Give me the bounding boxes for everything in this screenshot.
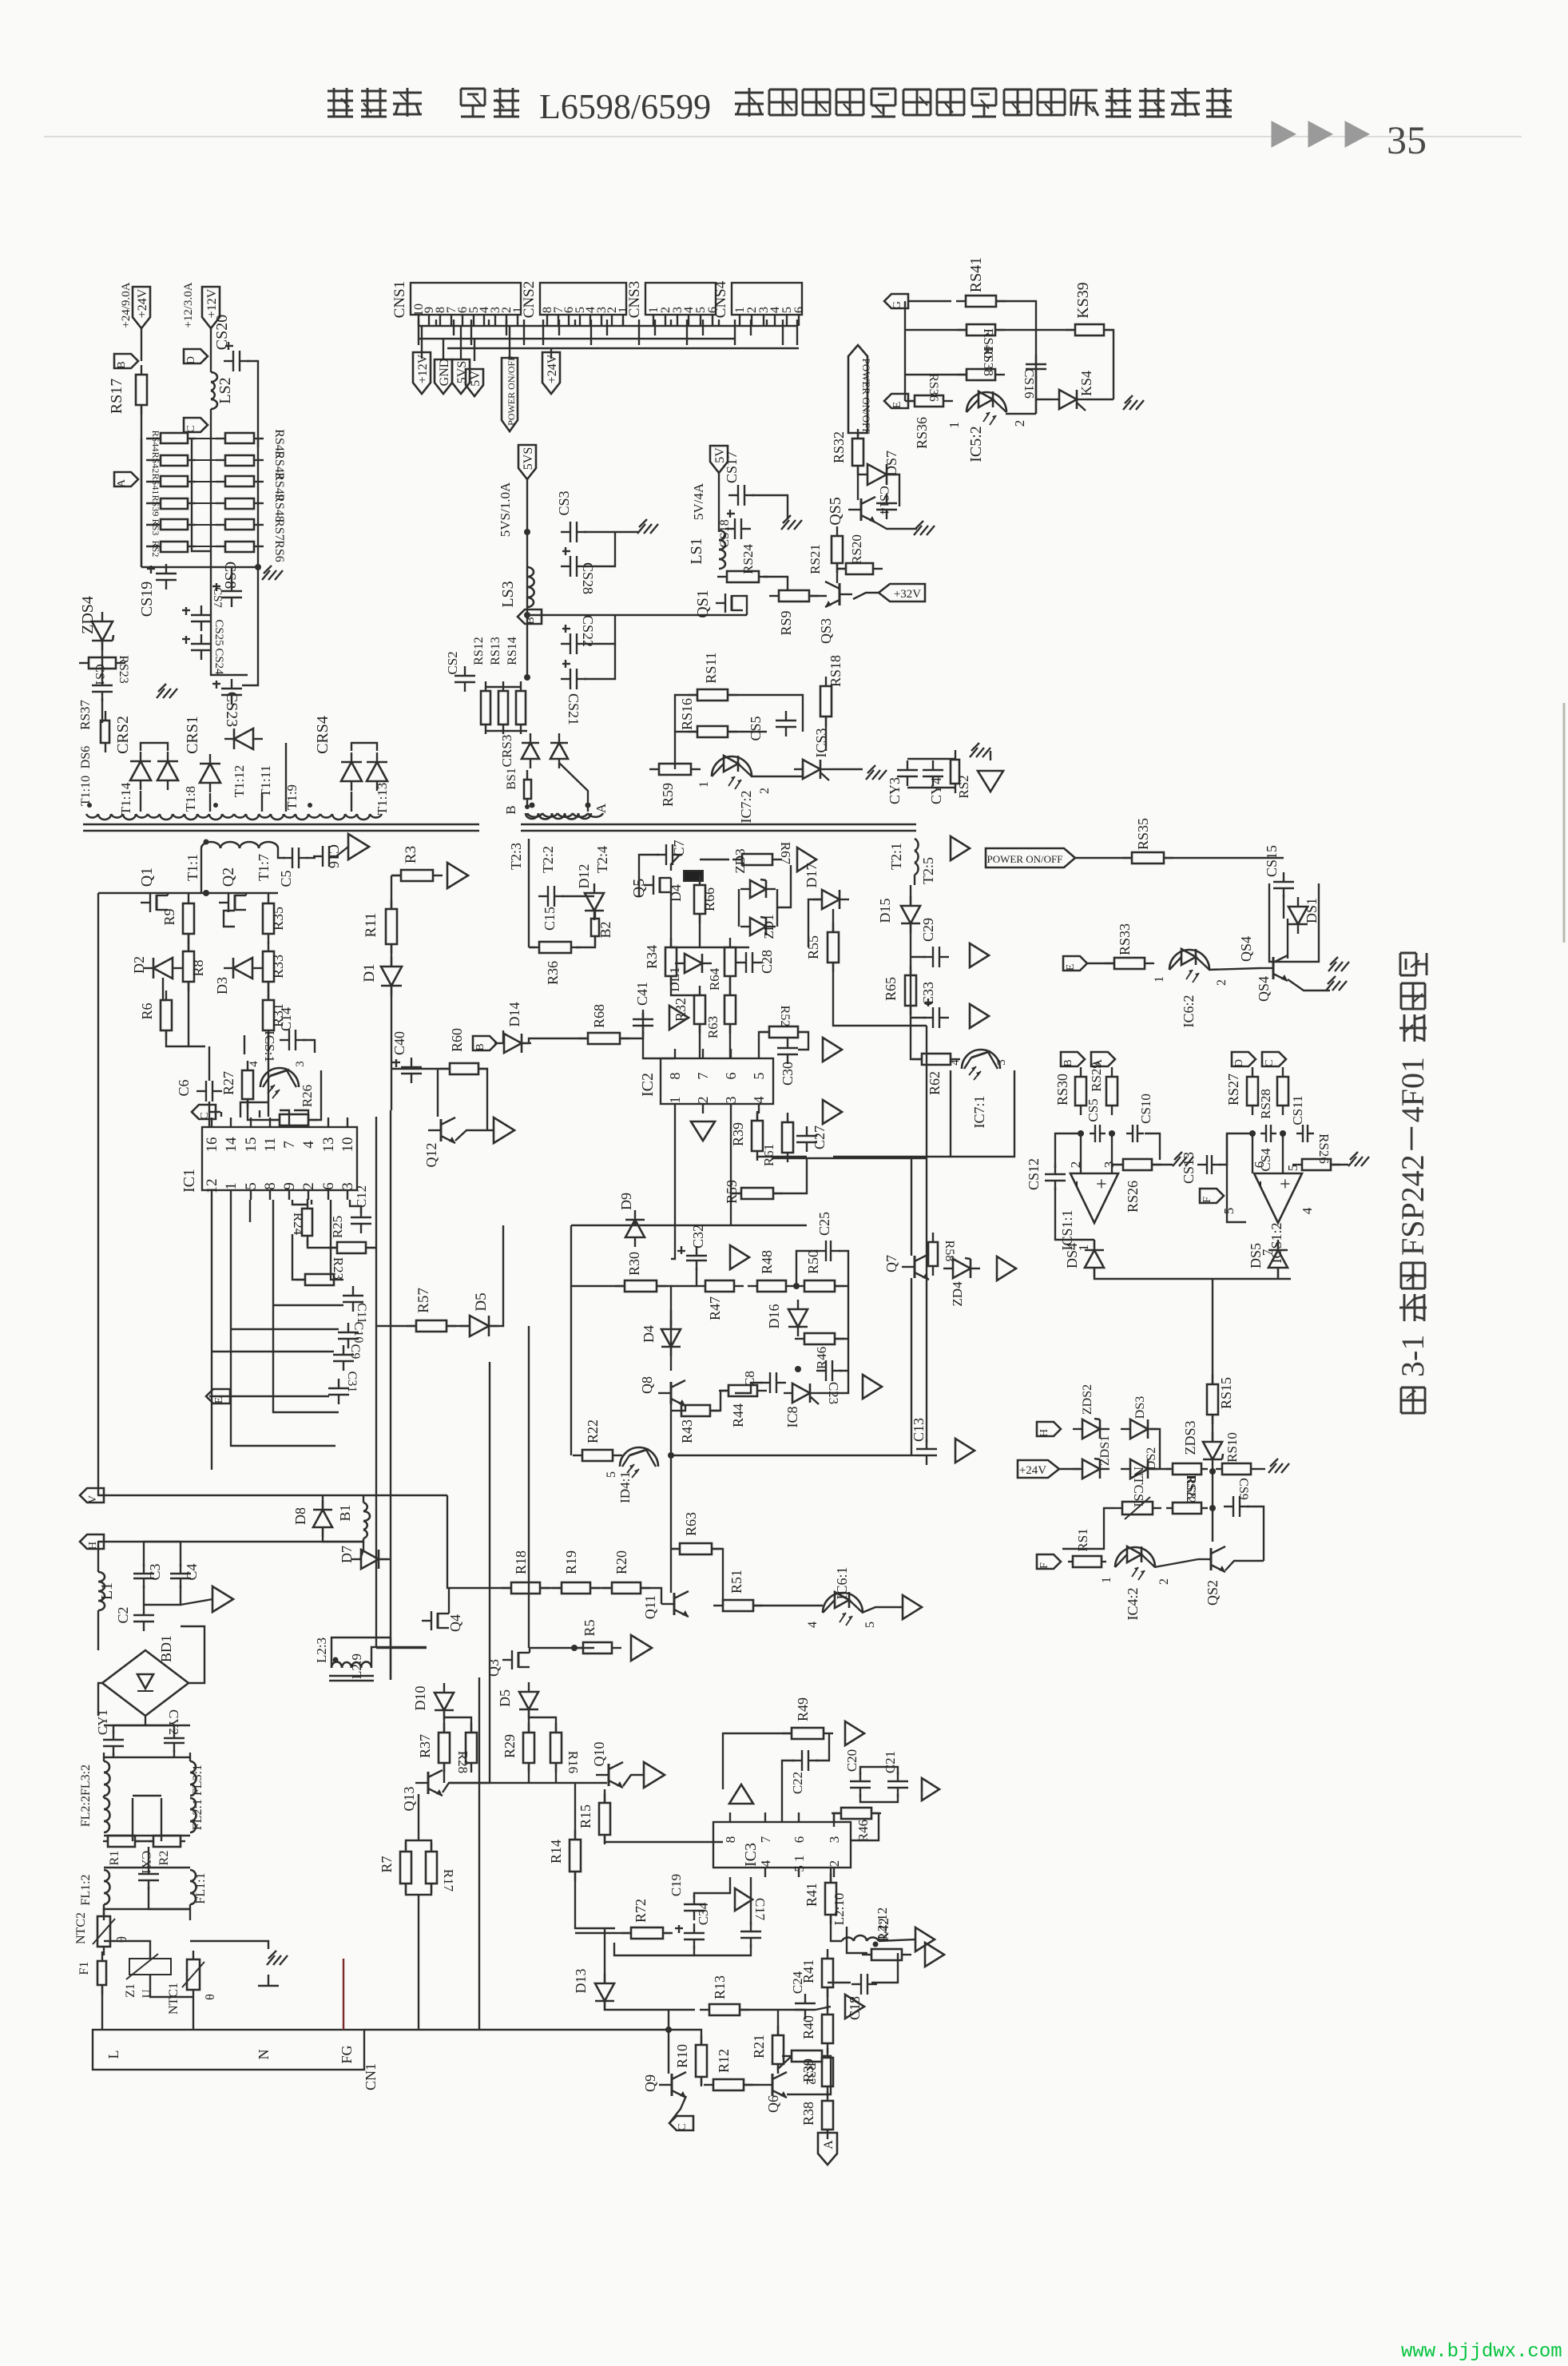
wire r55 down [833,963,927,1026]
wire r37 loop [444,1717,471,1733]
wire d1 down [391,986,392,1110]
svg-text:9: 9 [281,1182,298,1190]
wire fl ladder t2 [104,1725,190,1726]
svg-text:35: 35 [1387,117,1427,162]
svg-text:3: 3 [827,1836,842,1844]
wire res col left bus [141,439,142,567]
svg-text:D: D [185,356,197,364]
wire ds2 rs8 [1150,1468,1171,1470]
resistor R1 [103,1836,140,1847]
svg-text:E: E [213,1397,225,1404]
svg-text:R13: R13 [712,1975,728,1999]
svg-text:R42: R42 [875,1918,891,1942]
svg-text:R64: R64 [707,967,722,990]
svg-text:1: 1 [223,1182,240,1190]
wire rs9 qs3 [809,595,827,597]
svg-text:C: C [1264,1059,1276,1066]
wire ntc loop [1062,1508,1113,1549]
svg-text:B: B [116,361,128,368]
resistor R19 [552,1582,600,1594]
svg-text:RS12: RS12 [472,637,486,665]
capacitor C11 [343,1286,363,1312]
wire rs40 [905,329,967,331]
svg-text:R1: R1 [108,1851,121,1866]
wire b1 up [363,1495,364,1503]
wire c40 r60 [391,1068,449,1070]
wire e rs33 [1087,963,1115,964]
resistor RS49 [216,476,264,486]
capacitor C12 [351,1208,371,1233]
ground ics3b [866,765,887,780]
wire left bus down [97,893,99,1495]
wire c25 r [839,1251,848,1286]
wire c16 arrow [336,847,348,856]
transistor QS2 [1198,1546,1225,1572]
resistor R10 [696,2035,707,2086]
resistor R48 [748,1280,796,1292]
svg-text:R49: R49 [795,1697,811,1721]
svg-text:G: G [891,301,903,309]
wire r29 loop [529,1717,556,1733]
svg-text:R46: R46 [855,1820,871,1842]
inductor L1 [98,1572,116,1610]
svg-text:C21: C21 [883,1751,898,1773]
net arrow c13 [955,1439,975,1463]
resistor R59 [732,1188,783,1199]
svg-text:ZD3: ZD3 [732,848,748,873]
resistor R16 [550,1723,562,1773]
wire cn l [101,1985,103,2030]
svg-text:CS17: CS17 [724,451,740,483]
resistor R60 [440,1063,488,1074]
wire bd1 cy link [113,1753,114,1757]
capacitor C29 [923,947,949,967]
resistor RS42 [146,455,196,466]
wire f5vs [460,326,462,359]
resistor R31 [263,990,274,1040]
svg-text:ID4:1: ID4:1 [617,1471,633,1503]
DS1 box [1269,883,1319,962]
wire icsb in1 [1252,1133,1253,1173]
svg-text:CX1: CX1 [139,1851,153,1875]
capacitor C18 [851,1974,877,1995]
wire d7 down [360,1542,363,1559]
wire f24 [550,348,552,359]
resistor RS2b [951,750,959,793]
resistor RS45 [216,433,264,443]
svg-text:Q7: Q7 [883,1255,899,1272]
zener ZD4 [943,1258,980,1278]
wire fgnd [443,339,444,359]
wire zds1 row [1059,1468,1080,1470]
svg-text:C40: C40 [391,1031,407,1055]
resistor R66 [694,875,705,923]
resistor R26 [270,1114,318,1125]
wire c18 r [871,1953,898,1983]
wire cs17 [752,495,788,519]
svg-text:IC4:2: IC4:2 [1125,1587,1141,1620]
svg-text:RS3: RS3 [150,519,161,536]
resistor R12 [704,2079,753,2090]
wire c27 rail2 [772,1157,927,1159]
zener ZDS2 [1073,1419,1110,1439]
flag +24V qs2 [1018,1460,1059,1478]
wire mid bus b [489,1362,490,1783]
wire r7 down [418,1895,419,2030]
diode DS4 [1085,1241,1104,1277]
node E flag relay [884,394,908,408]
resistor R41 [822,1949,833,1997]
wire cs16 dn [1035,376,1037,414]
node E flag left [206,1389,230,1403]
svg-text:R12: R12 [716,2049,732,2073]
svg-text:C16: C16 [326,844,342,868]
ground 5v [781,515,802,530]
svg-text:IC6:1: IC6:1 [834,1566,850,1599]
ground rs26b [1348,1152,1369,1166]
wire rs38 [905,374,967,375]
resistor R63b [724,986,736,1034]
wire crs4 net [351,743,377,751]
svg-text:H: H [87,1542,99,1550]
svg-text:IC7:1: IC7:1 [971,1095,987,1128]
svg-text:D15: D15 [877,899,893,923]
wire c33 stub [911,1017,926,1018]
wire d5 to q3 drain [528,1326,530,1648]
wire rs top [486,686,521,688]
wire ic72 r [751,765,803,776]
svg-text:RS28: RS28 [1258,1089,1273,1119]
svg-text:C30: C30 [780,1062,796,1086]
net arrow c4 [212,1586,233,1612]
wire relay top [908,300,951,302]
junction rs27 [1249,1130,1256,1137]
optocoupler IC6:1 [823,1592,863,1626]
wire d14 r [522,1042,529,1044]
capacitor C34 [675,1923,705,1949]
wire c4 arr [181,1599,212,1605]
svg-text:R35: R35 [270,907,286,931]
svg-text:DS1: DS1 [1304,898,1320,923]
wire fl1 bot l [103,1904,105,1920]
svg-text:C27: C27 [812,1125,828,1149]
wire cx1 v2 [149,1887,190,1909]
wire r43 r [710,1391,728,1411]
wire D to LS2 [210,356,212,372]
resistor R3 [391,870,443,881]
svg-text:R7: R7 [379,1856,395,1872]
wire r10 r12 [701,2077,702,2085]
wire q2 gate [224,911,235,927]
net arrow t1 [348,834,369,859]
svg-text:5: 5 [1221,1208,1237,1215]
connector CNS1 [411,283,521,315]
svg-text:5: 5 [243,1182,260,1190]
svg-text:RS30: RS30 [1054,1074,1070,1106]
wire q8 r43 [681,1404,685,1411]
net arrow c24 [845,1995,864,2019]
wire ic62 qs4 [1209,968,1260,970]
diode D13 [595,1974,614,2011]
svg-text:DS4: DS4 [1064,1243,1080,1268]
wire cs9 r [1247,1507,1264,1561]
svg-text:CY1: CY1 [95,1709,110,1735]
wire ic1 p11 [259,1110,260,1117]
svg-text:T2:1: T2:1 [888,843,904,870]
resistor R59b [649,764,701,775]
svg-text:F: F [1038,1562,1050,1569]
wire ic52 out [1006,413,1036,415]
svg-text:R21: R21 [751,2035,767,2058]
svg-text:RS37: RS37 [77,700,93,730]
wire zd rail [700,947,749,948]
wire ics1 loop [248,1099,280,1120]
svg-text:DS3: DS3 [1133,1396,1147,1419]
capacitor CY2 [164,1729,185,1753]
wire c7 l [639,855,659,896]
svg-text:4: 4 [806,1622,820,1628]
inductor FL1:2 [104,1870,110,1904]
wire cs15 down [1283,895,1284,919]
resistor R17 [426,1842,437,1893]
svg-text:1: 1 [947,422,962,429]
resistor RS37 [101,711,109,752]
resistor R7 [400,1842,411,1893]
wire cs10 r [1145,1133,1160,1160]
zener ZD3 [740,879,776,898]
svg-text:4: 4 [1300,1207,1315,1214]
wire cs28 r [584,532,615,566]
capacitor C13 [916,1439,937,1465]
wire c41 up [642,1013,644,1038]
wire fl top l [103,1753,105,1761]
wire r46 l [834,1813,840,1827]
svg-text:D2: D2 [131,956,147,974]
resistor R18 [502,1582,550,1594]
resistor R32b [694,986,705,1034]
net arrow c33 [970,1004,989,1028]
svg-text:D13: D13 [573,1969,589,1994]
svg-text:A: A [593,803,609,813]
wire r30 l [571,1225,625,1286]
resistor RS12 [481,681,490,734]
transistor Q7 [902,1254,929,1280]
wire r60 r [478,1069,487,1130]
svg-text:T1:13: T1:13 [375,783,390,816]
capacitor C14 [280,1030,305,1050]
wire rs26 l [1112,1164,1123,1165]
svg-text:QS3: QS3 [818,618,834,644]
svg-text:RS36: RS36 [914,417,930,449]
svg-text:3-1: 3-1 [1395,1335,1431,1377]
wire icsa in1 [1080,1133,1082,1173]
svg-text:2: 2 [1157,1578,1171,1585]
wire cy bot [907,787,955,788]
wire r41 l2 [831,1915,842,1941]
resistor R5 [574,1642,621,1653]
svg-text:Q9: Q9 [642,2074,658,2092]
resistor R62 [912,1054,960,1065]
diode D16 [788,1300,808,1336]
wire r31 down [268,1030,269,1117]
wire ds4 rail [1094,1268,1291,1279]
svg-text:CS2: CS2 [445,651,460,674]
svg-text:B2: B2 [597,921,613,938]
diode D14 [494,1034,531,1053]
resistor RS41 [956,257,1006,307]
wire z1 vert [104,1941,150,1959]
net arrow t25 [951,836,970,860]
resistor R23 [296,1274,343,1285]
wire LS2 to C [210,409,212,471]
node D flag [184,349,208,364]
header title text [327,90,353,93]
transistor Q9 [659,2072,686,2098]
transistor Q10 [596,1762,623,1788]
wire z1 b [150,1975,193,1997]
wire r16 j2 [555,1763,557,1783]
svg-text:16: 16 [204,1137,220,1153]
flag +12V out [413,352,431,394]
flag 5V rail [710,446,728,473]
svg-text:R63: R63 [683,1512,699,1536]
capacitor C20 [850,1772,871,1797]
svg-text:IC8: IC8 [784,1407,800,1428]
wire ic1 p5 [249,1200,251,1222]
capacitor C9 [333,1345,354,1371]
node B flag rs30 [1061,1052,1085,1067]
diode DS2 [1121,1459,1157,1479]
wire cs21 r [584,644,615,679]
flag GND out [435,359,452,394]
wire zd tie [777,865,791,907]
wire d4 between [670,1310,672,1326]
capacitor C23 [816,1360,842,1381]
wire r18 l [447,1495,511,1588]
svg-text:Q2: Q2 [220,867,237,887]
wire r8 down [188,982,189,1046]
net arrow ic3 p6 [729,1784,753,1804]
wire bd1 l [98,1683,102,1716]
capacitor CS10 [1126,1125,1144,1142]
capacitor C30 [777,1038,798,1064]
svg-text:R20: R20 [613,1550,629,1574]
svg-text:CS14: CS14 [877,486,891,514]
svg-text:5VS: 5VS [522,447,535,470]
svg-text:CY3: CY3 [887,777,903,804]
resistor RS35 [1122,852,1173,863]
svg-text:CRS1: CRS1 [184,716,201,754]
wire c34 up [143,1542,145,1566]
wire rs bot [486,730,527,732]
svg-text:R3: R3 [403,846,419,863]
svg-text:NTC2: NTC2 [74,1912,88,1944]
transistor QS5 [827,497,875,526]
bridge rectifier BD1 [102,1650,189,1716]
connector CNS3 [645,283,716,315]
wire r23 l [292,1234,305,1280]
resistor R9 [183,894,194,943]
wire r7 bot [406,1884,431,1895]
wire r15 rail [605,1835,723,1842]
resistor RS8 [1166,1463,1208,1475]
svg-text:DS5: DS5 [1248,1243,1264,1268]
wire qs3 32v [853,593,879,599]
svg-text:R48: R48 [759,1250,775,1274]
wire c6 dn [208,1102,210,1112]
resistor RS15 [1207,1375,1218,1424]
resistor RS26b [1292,1159,1340,1170]
net arrow q12 [494,1117,514,1143]
wire r50 r [835,1285,848,1287]
IC IC3 [713,1812,851,1877]
resistor R25 [327,1242,375,1253]
svg-text:10: 10 [339,1137,356,1153]
optocoupler IC6:2 [1169,949,1209,983]
transistor Q12 [428,1117,455,1143]
wire r25 r [366,1247,376,1249]
svg-text:IC2: IC2 [639,1073,657,1097]
svg-text:CS20: CS20 [213,315,231,350]
wire r32 loop [787,2056,831,2094]
capacitor CS15 [1273,872,1294,898]
svg-text:Q12: Q12 [423,1143,439,1168]
svg-text:ZD1: ZD1 [761,914,776,939]
svg-text:R41: R41 [800,1959,816,1983]
svg-text:R22: R22 [585,1419,601,1443]
net arrow r3 [447,863,468,888]
svg-text:4: 4 [248,1061,260,1067]
svg-text:BS1: BS1 [505,768,518,790]
wire d15 r62 join [911,1054,922,1059]
IC IC1 [181,1117,357,1200]
resistor RS40 [957,324,1005,335]
flag A bottom [818,2133,837,2165]
wire bd1 r [181,1626,204,1683]
resistor R46b [795,1333,844,1344]
wire fpo [509,326,510,359]
svg-text:C33: C33 [920,982,936,1006]
svg-text:C2: C2 [115,1606,131,1623]
svg-text:R16: R16 [566,1751,581,1773]
wire c6 up [208,1046,210,1081]
svg-text:CRS3: CRS3 [499,735,514,768]
svg-text:CS8: CS8 [221,562,239,589]
svg-text:+: + [1092,1178,1113,1189]
wire p5 r52 [759,1032,769,1049]
wire ics1 box [244,1035,245,1054]
svg-text:CS25: CS25 [212,619,225,645]
wire qs4 e gnd [1288,979,1330,990]
svg-text:CS13: CS13 [1181,1152,1197,1184]
svg-text:F1: F1 [77,1962,91,1975]
svg-text:Q10: Q10 [591,1742,607,1767]
op-amp ICS1:1 [1066,1173,1118,1223]
wire cn n [193,1999,194,2030]
wire zd col r [776,889,778,927]
node V flag [80,1488,104,1503]
svg-text:RS10: RS10 [1225,1432,1240,1463]
wire r1819 [540,1587,562,1589]
wire d9 ic2 [634,1219,636,1225]
capacitor CY1 [103,1730,124,1756]
svg-text:13: 13 [320,1137,337,1153]
wire q8 up [657,1286,671,1371]
svg-text:R59: R59 [724,1180,740,1204]
flag 5VS rail [518,445,536,479]
wire d15 up [910,885,911,905]
wire t2 left [528,839,530,890]
